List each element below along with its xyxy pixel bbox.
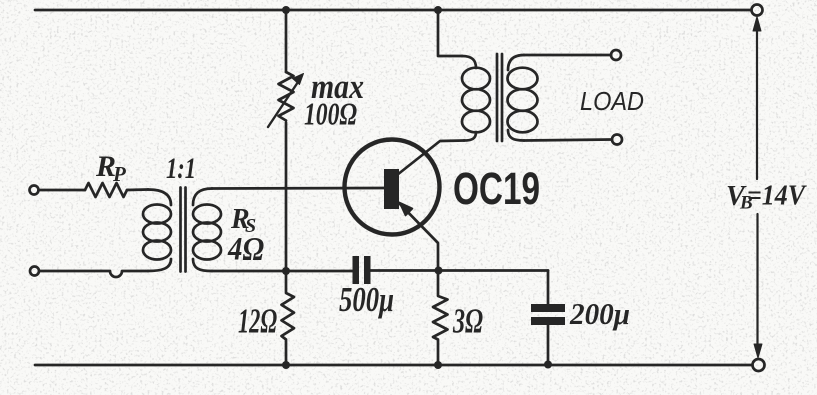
- junction node A (bias divider / T1 bottom): [282, 267, 290, 275]
- svg-text:200μ: 200μ: [569, 296, 630, 331]
- transistor Q1 body: [345, 140, 440, 235]
- resistor RP: [85, 183, 127, 197]
- VB arrow down: [754, 344, 762, 358]
- transistor Q1 emitter lead: [399, 203, 438, 270]
- VB arrow up: [753, 17, 761, 32]
- svg-text:P: P: [112, 162, 126, 186]
- svg-text:3Ω: 3Ω: [452, 302, 483, 341]
- svg-text:4Ω: 4Ω: [227, 232, 264, 268]
- junction 12 ohm to bottom rail: [282, 361, 290, 369]
- svg-text:100Ω: 100Ω: [304, 96, 357, 132]
- wire top rail to T2 primary: [438, 10, 462, 56]
- transformer T1 primary winding: [148, 190, 171, 206]
- svg-text:LOAD: LOAD: [580, 86, 644, 116]
- wire input top lead: [39, 189, 86, 192]
- junction cap 200u bottom rail: [544, 361, 552, 369]
- input terminal top: [30, 186, 39, 195]
- junction 3 ohm to bottom rail: [434, 361, 442, 369]
- VB measure line upper: [756, 29, 758, 179]
- svg-text:500μ: 500μ: [339, 280, 394, 319]
- wire T2 secondary to load bottom: [524, 140, 612, 141]
- wire rheostat to node A: [285, 123, 288, 272]
- capacitor 200u top plate: [531, 304, 565, 312]
- battery terminal bottom: [753, 359, 765, 371]
- input terminal bottom: [30, 267, 39, 276]
- transformer T2 core: [496, 54, 499, 141]
- load terminal top: [611, 50, 621, 60]
- wire T2 secondary to load top: [524, 54, 611, 57]
- wire top supply rail: [35, 9, 751, 12]
- wire base from T1 secondary: [212, 187, 384, 190]
- svg-text:12Ω: 12Ω: [238, 302, 277, 341]
- svg-text:=14V: =14V: [747, 180, 807, 212]
- wire bottom supply rail: [35, 364, 752, 367]
- resistor 12 ohm: [282, 271, 295, 365]
- wire emitter node to cap 200u: [547, 271, 550, 305]
- junction emitter node: [435, 267, 443, 275]
- capacitor 500u left plate: [353, 256, 360, 284]
- load terminal bottom: [612, 135, 622, 145]
- wire cap 200u to bottom rail: [547, 325, 550, 365]
- wire T1 secondary bottom to cap 500u: [212, 270, 353, 273]
- battery terminal top: [752, 5, 763, 16]
- svg-text:OC19: OC19: [453, 163, 540, 214]
- transformer T1 secondary winding: [193, 189, 212, 206]
- wire cap 500u to emitter node: [371, 269, 549, 272]
- transformer T1 core: [179, 188, 182, 272]
- junction top rail to T2: [434, 6, 442, 14]
- capacitor 500u right plate: [364, 256, 371, 284]
- junction top rail to rheostat: [282, 6, 290, 14]
- transistor Q1 collector lead: [397, 141, 464, 176]
- transistor Q1 base bar: [384, 169, 399, 209]
- wire top rail to rheostat: [285, 10, 288, 72]
- svg-text:1:1: 1:1: [166, 152, 196, 185]
- rheostat arrow: [268, 79, 300, 127]
- rheostat 100 ohm: [279, 72, 294, 121]
- wire RP to transformer: [127, 188, 148, 191]
- capacitor 200u bottom plate: [531, 317, 565, 325]
- transistor Q1 emitter arrow: [400, 203, 413, 216]
- resistor 3 ohm: [433, 271, 448, 366]
- transformer T2 secondary winding: [508, 55, 524, 70]
- transformer T2 primary winding: [462, 56, 476, 68]
- wire input bottom lead: [39, 271, 148, 277]
- VB measure line lower: [756, 214, 758, 346]
